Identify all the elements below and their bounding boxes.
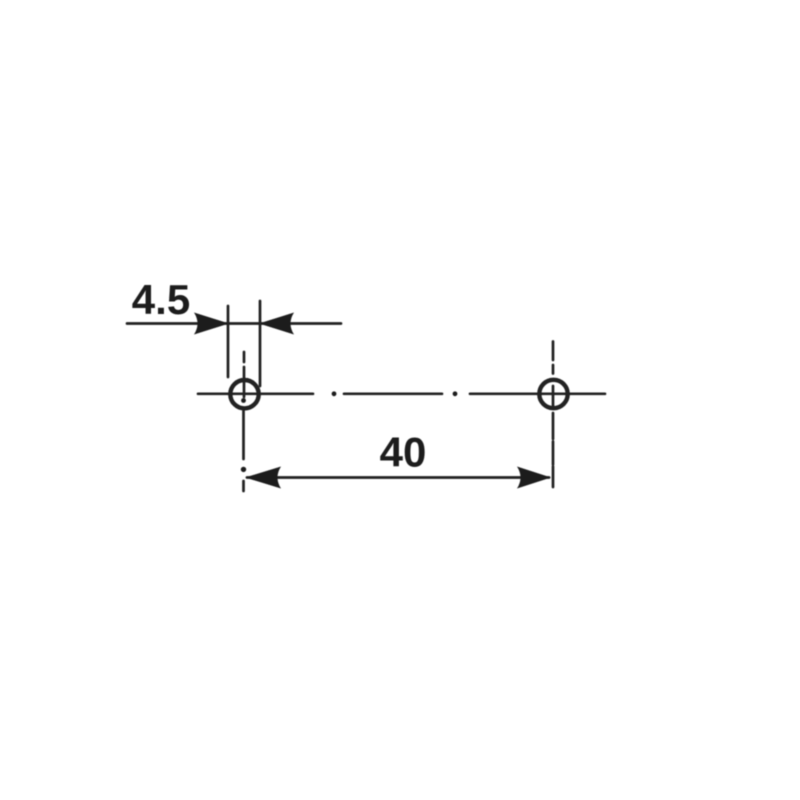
centerline dot 2: [453, 391, 458, 396]
arrowhead right (points left at right extension line): [259, 313, 294, 335]
horizontal centerline through hole H2: [470, 392, 605, 395]
vertical centerline above hole H1: [243, 352, 246, 362]
centerline dot below hole H1: [241, 467, 246, 472]
vertical centerline below hole H1: [242, 411, 245, 459]
svg-text:40: 40: [380, 429, 427, 476]
extension line right of hole H1: [259, 301, 262, 386]
horizontal centerline long dash: [344, 392, 442, 395]
dimension line 40: [247, 476, 549, 479]
arrowhead right of 40 dimension: [517, 467, 551, 489]
extension line left of hole H1: [227, 306, 230, 377]
arrowhead left of 40 dimension: [245, 467, 281, 489]
centerline dot inside hole H1: [241, 398, 246, 403]
vertical centerline inside hole H2: [552, 386, 555, 407]
centerline dot 1: [332, 391, 337, 396]
horizontal centerline segment through hole H1: [198, 392, 313, 395]
arrowhead left (points right at left extension line): [194, 313, 229, 335]
dimension line 4.5: [127, 322, 341, 325]
vertical centerline inside hole H1: [243, 382, 246, 397]
vertical centerline above hole H2: [552, 342, 555, 361]
svg-text:4.5: 4.5: [132, 276, 190, 323]
hole H2 circle: [539, 380, 567, 408]
vertical centerline dash crossing 40-dim line: [242, 481, 245, 491]
hole H1 circle: [230, 380, 258, 408]
vertical centerline below hole H2: [552, 413, 555, 439]
